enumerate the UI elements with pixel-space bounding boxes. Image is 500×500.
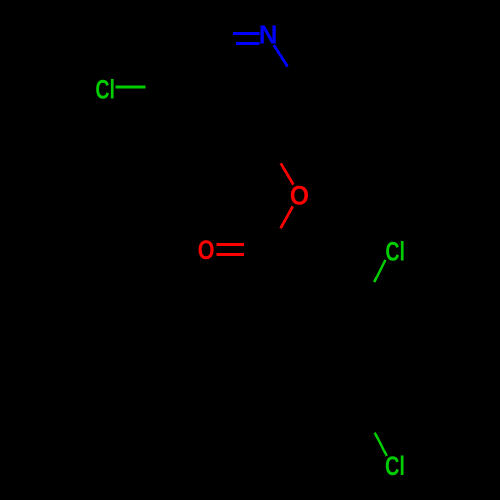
- bond O-C carbonyl (O half): [281, 206, 293, 228]
- svg-text:O: O: [198, 236, 215, 266]
- bond C=O double bond upper line (O half): [217, 243, 244, 246]
- bond Cl-C4' (Cl half): [375, 433, 387, 456]
- svg-text:Cl: Cl: [385, 237, 405, 267]
- bond Cl-C5 (Cl half): [115, 86, 145, 89]
- svg-text:Cl: Cl: [95, 76, 115, 106]
- svg-text:Cl: Cl: [385, 451, 405, 482]
- bond C3-O ester (O half): [281, 163, 294, 184]
- bond C6=N1 double bond outer line (N half): [233, 32, 260, 35]
- bond N1-C2 (N half): [274, 45, 288, 67]
- bond C6=N1 double bond inner line (N half): [236, 42, 260, 45]
- bond C=O double bond lower line (O half): [217, 253, 244, 256]
- bond Cl-C2' (Cl half): [374, 260, 385, 282]
